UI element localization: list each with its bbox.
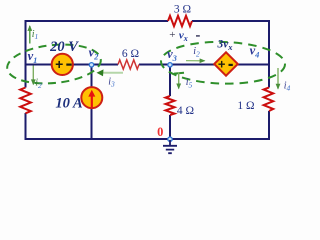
svg-text:+: + — [218, 56, 226, 71]
wire left border lower segment — [25, 113, 27, 140]
node v3 (dot) — [168, 63, 172, 67]
svg-text:6 Ω: 6 Ω — [122, 48, 139, 60]
wire v2 branch lower — [91, 108, 93, 139]
wire v2 branch upper — [91, 65, 93, 88]
svg-text:3 Ω: 3 Ω — [174, 3, 191, 15]
voltage source 20V — [52, 54, 73, 75]
ground — [163, 140, 177, 153]
svg-text:+: + — [55, 56, 63, 72]
svg-text:1 Ω: 1 Ω — [237, 100, 254, 112]
wire left border upper segment — [25, 20, 27, 88]
svg-text:10 A: 10 A — [55, 96, 83, 112]
wire bottom border — [25, 138, 271, 140]
svg-text:+: + — [169, 29, 175, 41]
wire v3 branch upper — [169, 65, 171, 97]
current arrow i1 — [29, 26, 31, 44]
svg-text:20 V: 20 V — [49, 39, 79, 55]
resistor R 3ohm top — [168, 16, 192, 26]
current arrow i4 — [277, 68, 279, 89]
current arrow i2 left — [32, 66, 34, 85]
wire top border right segment — [192, 20, 270, 22]
svg-text:4 Ω: 4 Ω — [177, 105, 194, 117]
current arrow i5 — [178, 73, 180, 89]
svg-text:0: 0 — [157, 125, 163, 139]
current source 10A — [81, 87, 102, 108]
node v2 (dot) — [89, 63, 93, 67]
wire middle diamond to right border — [237, 64, 269, 66]
node 0 (reference, dot) — [168, 137, 172, 141]
wire middle 6ohm to diamond — [139, 64, 215, 66]
resistor R 6ohm — [118, 60, 139, 69]
resistor left border (unlabeled) — [20, 88, 31, 114]
wire middle 20V source to 6ohm — [72, 64, 119, 66]
resistor R 4ohm — [166, 96, 175, 115]
wire right border upper segment — [268, 20, 270, 88]
wire top border left segment — [25, 20, 169, 22]
wire v3 branch lower — [169, 115, 171, 139]
dependent source 3vx (diamond) — [214, 52, 238, 75]
wire middle left of 20V source — [26, 64, 52, 66]
resistor R 1ohm right border — [264, 88, 274, 112]
current arrow i3 — [103, 72, 124, 74]
current arrow i2 right — [186, 60, 205, 62]
wire right border lower segment — [268, 111, 270, 140]
supernode loop left (dashed ellipse) — [5, 41, 102, 88]
supernode loop right (dashed ellipse) — [160, 40, 285, 85]
wire green dash near i5 — [174, 72, 184, 75]
